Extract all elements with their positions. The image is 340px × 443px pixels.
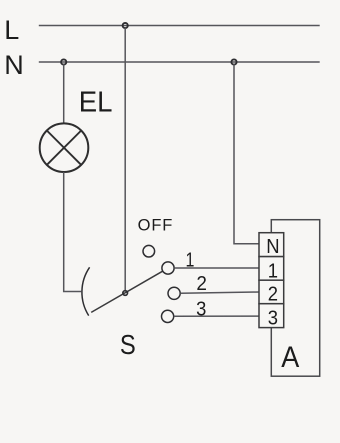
lamp EL circle <box>40 123 89 172</box>
switch contact 1 <box>162 262 174 274</box>
switch S wiper <box>91 271 162 312</box>
lamp EL cross stroke 2 <box>47 131 81 165</box>
svg-text:L: L <box>4 15 19 45</box>
wire contact 1 to terminal 1 <box>174 267 259 269</box>
svg-text:N: N <box>266 235 279 258</box>
junction on N at box A feed <box>231 59 236 64</box>
net L bus wire <box>39 25 320 27</box>
wire N to lamp <box>63 64 65 123</box>
svg-text:2: 2 <box>268 283 278 306</box>
svg-text:A: A <box>281 341 299 375</box>
terminal 2 box <box>259 280 284 304</box>
switch S pivot <box>123 291 128 296</box>
svg-text:2: 2 <box>196 272 207 295</box>
wire L to switch pivot <box>124 28 126 291</box>
svg-text:3: 3 <box>268 307 278 330</box>
terminal 1 box <box>259 257 284 281</box>
net N bus wire <box>39 61 320 63</box>
switch contact 3 <box>162 310 174 322</box>
svg-text:3: 3 <box>196 299 206 321</box>
switch contact OFF <box>143 245 155 257</box>
lamp EL cross stroke 1 <box>47 131 81 165</box>
switch contact 2 <box>168 287 180 299</box>
junction on N at lamp feed <box>61 59 66 64</box>
wire contact 2 to terminal 2 <box>180 292 259 293</box>
svg-text:OFF: OFF <box>138 217 174 235</box>
svg-text:1: 1 <box>268 260 278 283</box>
terminal N box <box>259 233 284 257</box>
switch S travel arc <box>82 267 90 315</box>
junction on L at switch feed <box>123 23 128 28</box>
svg-text:N: N <box>4 50 24 80</box>
wire N to terminal N <box>234 64 259 244</box>
svg-text:EL: EL <box>79 85 113 118</box>
terminal 3 box <box>259 304 284 328</box>
svg-text:S: S <box>120 328 136 360</box>
wire lamp to switch common <box>64 172 81 292</box>
wire contact 3 to terminal 3 <box>174 315 259 317</box>
box A outline <box>271 220 319 377</box>
